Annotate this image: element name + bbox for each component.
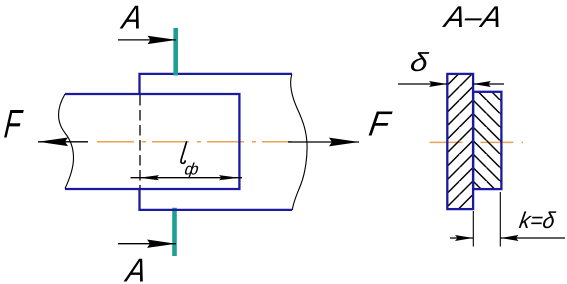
svg-text:k=δ: k=δ [518,207,558,233]
svg-text:ф: ф [183,160,200,179]
svg-text:A–A: A–A [440,1,504,34]
